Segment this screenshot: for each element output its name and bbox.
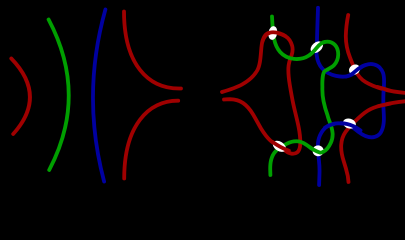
- red curve R2 (top right, exits right edge y~93): [346, 15, 405, 93]
- left blue leaf arc: [93, 10, 105, 182]
- left red leaf arc: [11, 59, 30, 135]
- crossing X4: blue over-strand: [341, 123, 361, 130]
- left cusp upper red arc: [124, 12, 181, 89]
- crossing X6: green over-strand: [311, 148, 324, 153]
- crossing red-over-blue (no casing) upper: [378, 87, 390, 91]
- crossing X2: green over-strand: [310, 42, 326, 55]
- red curve R3 (right edge y~101 to bottom tail): [341, 101, 405, 182]
- crossing X3: blue over-strand: [346, 65, 365, 76]
- crossing X3: white casing: [347, 62, 362, 76]
- blue curve B1 (long strand of right cluster): [316, 8, 384, 185]
- crossing X7: white casing: [271, 138, 288, 154]
- left green leaf arc: [49, 20, 69, 171]
- crossing X1: red over-strand: [262, 32, 285, 42]
- left cusp lower red arc: [124, 101, 178, 179]
- crossing red-over-blue (no casing) lower: [378, 104, 390, 107]
- crossing X4: white casing: [342, 117, 357, 130]
- crossing blue-over-green (no casing) band: [325, 124, 334, 128]
- crossing X7: red over-strand: [273, 142, 289, 151]
- red curve R1 (big loop of right cluster): [222, 32, 300, 154]
- green curve G1 (long strand of right cluster): [270, 17, 338, 176]
- crossing X1: white casing: [267, 25, 278, 40]
- crossing X2: white casing: [308, 39, 325, 55]
- crossing X6: white casing: [311, 144, 324, 157]
